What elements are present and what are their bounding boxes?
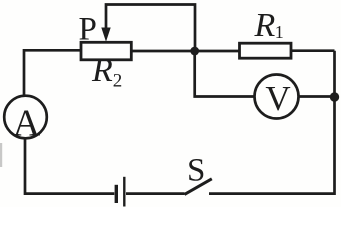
svg-text:R: R: [254, 7, 276, 44]
wire: node A row through to R1: [131, 50, 239, 53]
svg-text:1: 1: [275, 22, 284, 42]
svg-text:P: P: [79, 12, 97, 48]
rheostat R2 body: [81, 42, 131, 60]
node B junction dot: [330, 92, 339, 101]
wire: switch to right rail bottom: [209, 51, 335, 194]
wiper arrow P (arrowhead): [101, 28, 110, 42]
svg-text:V: V: [265, 79, 290, 118]
svg-text:2: 2: [113, 71, 123, 92]
svg-text:R: R: [91, 52, 113, 89]
wire: R1 right end to right rail: [291, 49, 335, 52]
node A junction dot: [190, 47, 199, 56]
wire: battery to switch: [126, 192, 185, 195]
wire: top feedback wire from wiper P to node A: [106, 5, 195, 50]
ammeter A1 circle: [4, 96, 47, 139]
wire: node A down and right to voltmeter: [195, 51, 255, 97]
resistor R1 body: [240, 43, 292, 58]
scan artifact left edge: [0, 143, 2, 167]
svg-text:A: A: [13, 102, 41, 144]
wire: voltmeter to node B: [299, 95, 335, 98]
switch S blade: [185, 179, 212, 195]
wire: ammeter bottom to battery: [25, 138, 114, 193]
voltmeter V1 circle: [255, 75, 299, 119]
battery positive plate (long): [123, 177, 125, 207]
wire: rheostat left end to left rail: [24, 50, 81, 96]
svg-text:S: S: [187, 152, 205, 188]
battery negative plate (short): [115, 185, 118, 203]
